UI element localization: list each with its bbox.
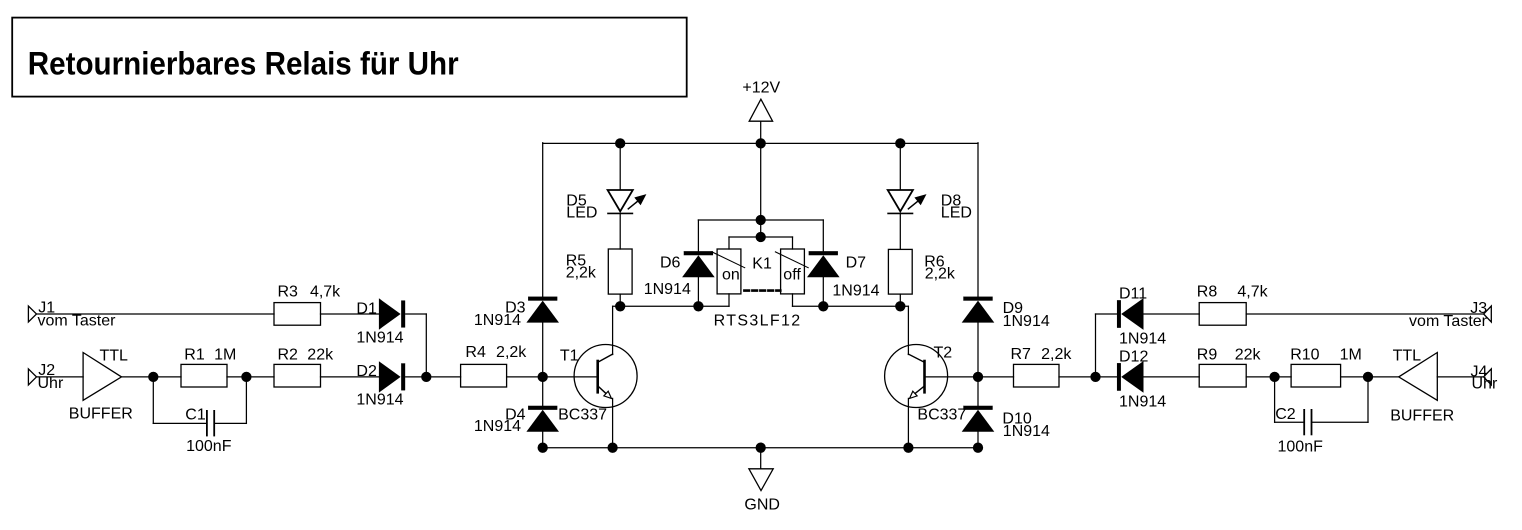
svg-text:T1: T1 <box>560 347 579 364</box>
svg-text:100nF: 100nF <box>1278 439 1324 456</box>
svg-text:4,7k: 4,7k <box>310 283 341 300</box>
svg-text:D7: D7 <box>846 255 867 272</box>
svg-text:C2: C2 <box>1275 406 1296 423</box>
svg-text:R1: R1 <box>184 346 205 363</box>
svg-text:Uhr: Uhr <box>1472 376 1498 393</box>
svg-text:1N914: 1N914 <box>1119 393 1166 410</box>
svg-text:vom Taster: vom Taster <box>1409 313 1488 330</box>
svg-text:on: on <box>722 266 740 283</box>
svg-text:D11: D11 <box>1119 286 1147 303</box>
svg-text:R8: R8 <box>1197 283 1218 300</box>
svg-text:1N914: 1N914 <box>1003 423 1050 440</box>
svg-text:LED: LED <box>941 204 972 221</box>
svg-text:R4: R4 <box>465 344 486 361</box>
svg-text:1N914: 1N914 <box>474 312 521 329</box>
svg-text:4,7k: 4,7k <box>1237 283 1268 300</box>
svg-text:BC337: BC337 <box>558 407 607 424</box>
svg-text:BUFFER: BUFFER <box>1390 408 1454 425</box>
svg-text:LED: LED <box>566 204 597 221</box>
svg-text:R3: R3 <box>278 283 299 300</box>
svg-text:1N914: 1N914 <box>1003 313 1050 330</box>
svg-text:BUFFER: BUFFER <box>69 406 133 423</box>
svg-text:K1: K1 <box>752 256 772 273</box>
svg-text:TTL: TTL <box>100 347 129 364</box>
svg-text:+12V: +12V <box>742 79 780 96</box>
svg-text:100nF: 100nF <box>186 438 232 455</box>
svg-text:vom Taster: vom Taster <box>38 312 117 329</box>
svg-text:1M: 1M <box>214 346 236 363</box>
svg-text:2,2k: 2,2k <box>1041 346 1072 363</box>
svg-text:1N914: 1N914 <box>832 283 879 300</box>
svg-text:GND: GND <box>744 497 780 514</box>
svg-text:D2: D2 <box>356 363 377 380</box>
svg-text:BC337: BC337 <box>917 407 966 424</box>
svg-text:1N914: 1N914 <box>474 418 521 435</box>
svg-text:D6: D6 <box>660 255 681 272</box>
svg-text:C1: C1 <box>185 406 206 423</box>
svg-text:R9: R9 <box>1197 346 1218 363</box>
svg-text:2,2k: 2,2k <box>496 344 527 361</box>
svg-text:off: off <box>783 266 801 283</box>
svg-text:RTS3LF12: RTS3LF12 <box>714 313 802 330</box>
svg-text:22k: 22k <box>307 346 334 363</box>
svg-text:1N914: 1N914 <box>1119 330 1166 347</box>
svg-text:R2: R2 <box>278 346 299 363</box>
svg-text:D12: D12 <box>1119 348 1148 365</box>
svg-text:R10: R10 <box>1290 346 1319 363</box>
svg-text:1N914: 1N914 <box>356 330 403 347</box>
svg-text:TTL: TTL <box>1393 347 1422 364</box>
svg-text:1N914: 1N914 <box>356 392 403 409</box>
svg-text:1M: 1M <box>1340 346 1362 363</box>
svg-text:22k: 22k <box>1235 346 1262 363</box>
svg-text:2,2k: 2,2k <box>566 265 597 282</box>
svg-text:1N914: 1N914 <box>644 281 691 298</box>
svg-text:Retournierbares Relais für Uhr: Retournierbares Relais für Uhr <box>28 45 459 81</box>
svg-text:T2: T2 <box>934 345 953 362</box>
svg-text:D1: D1 <box>356 301 377 318</box>
svg-text:R7: R7 <box>1011 346 1032 363</box>
svg-text:2,2k: 2,2k <box>925 265 956 282</box>
